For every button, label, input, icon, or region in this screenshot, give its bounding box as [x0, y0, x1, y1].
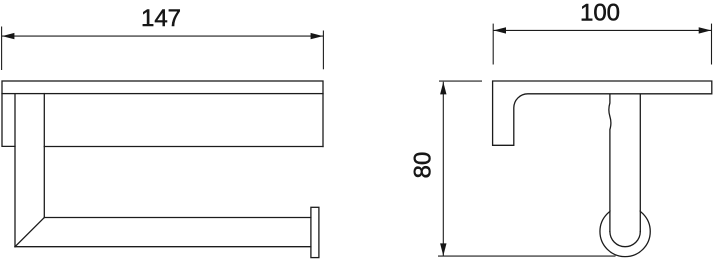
roll bar bottom edge: [15, 246, 311, 248]
arrow left: [494, 27, 506, 33]
arm left edge: [14, 94, 16, 247]
roll bar end cap: [311, 207, 319, 257]
arm occluding fill: [611, 95, 640, 232]
back plate bottom edge: [44, 146, 323, 148]
dimension line: [493, 29, 711, 31]
shelf slab: [2, 81, 323, 94]
svg-text:80: 80: [410, 152, 437, 179]
label 80: [410, 152, 437, 179]
arm bottom U (rod end): [610, 232, 640, 247]
arrow right: [699, 27, 711, 33]
extension line right: [711, 24, 713, 65]
extension line top: [439, 80, 482, 82]
outer flange circle: [600, 206, 650, 256]
arrow down: [440, 243, 446, 255]
dimension line: [442, 82, 444, 256]
extension line right: [322, 31, 324, 70]
arm left edge with wave: [609, 94, 611, 231]
extension line left: [1, 27, 3, 71]
roll bar top edge: [44, 217, 311, 219]
wall plate (left): [2, 94, 15, 147]
arrow left: [2, 33, 14, 39]
extension line left: [492, 24, 494, 65]
label 147: [141, 5, 181, 32]
extension line bottom: [438, 255, 616, 257]
arrow up: [440, 82, 446, 94]
back plate right edge: [322, 94, 324, 147]
shelf + wall bracket outline: [493, 81, 712, 145]
label 100: [580, 0, 620, 27]
arm right edge: [639, 94, 641, 231]
arrow right: [311, 33, 323, 39]
svg-text:100: 100: [580, 0, 620, 27]
svg-text:147: 147: [141, 5, 181, 32]
dimension line: [2, 35, 324, 37]
arm bottom corner diagonal: [15, 218, 44, 247]
arm right edge: [43, 94, 45, 218]
